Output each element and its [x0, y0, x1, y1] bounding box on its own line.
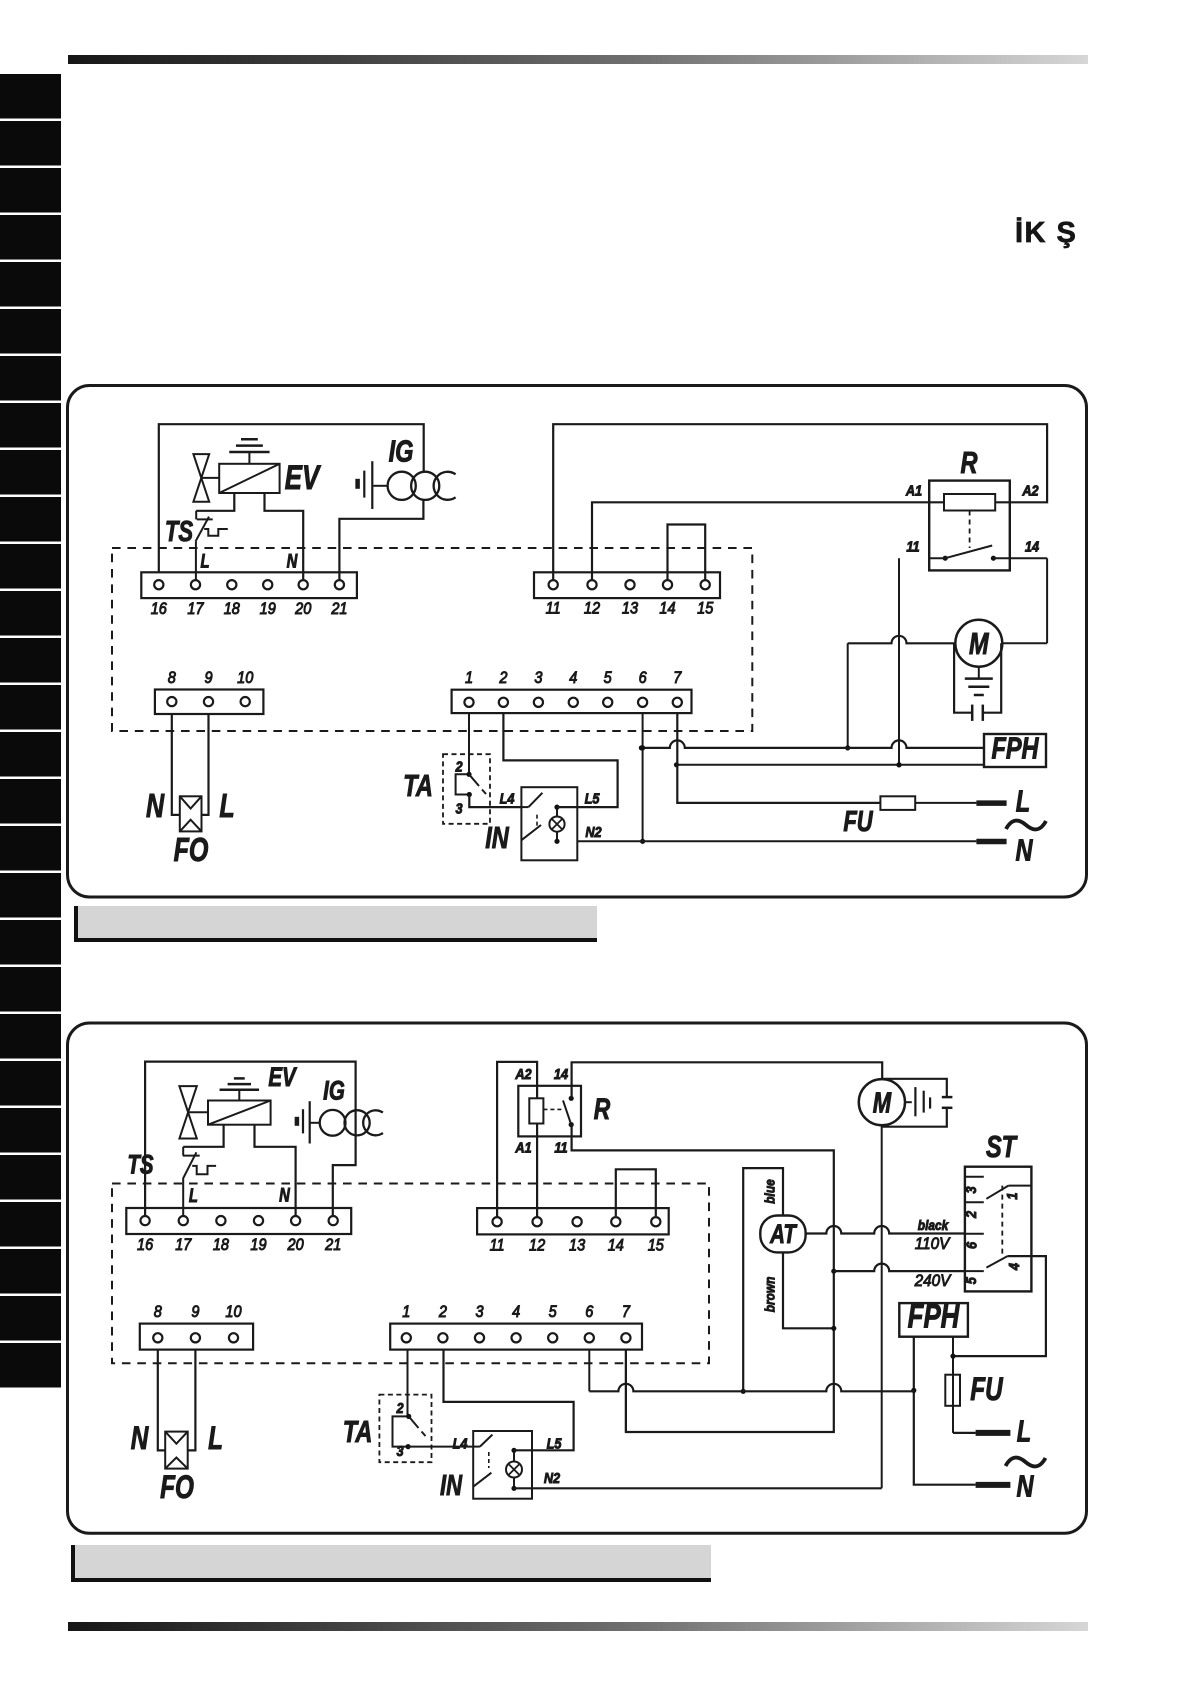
svg-text:R: R [594, 1092, 611, 1126]
svg-text:TS: TS [127, 1150, 153, 1180]
svg-text:N: N [1015, 833, 1033, 868]
svg-text:17: 17 [187, 600, 204, 618]
svg-text:N: N [1016, 1468, 1034, 1503]
svg-text:18: 18 [213, 1236, 229, 1254]
svg-text:A1: A1 [905, 482, 922, 499]
svg-text:1: 1 [1003, 1193, 1020, 1200]
svg-text:8: 8 [154, 1303, 162, 1321]
svg-text:EV: EV [285, 460, 322, 497]
svg-text:N: N [146, 788, 165, 825]
svg-text:6: 6 [963, 1242, 980, 1249]
svg-text:19: 19 [260, 600, 276, 618]
svg-text:L5: L5 [547, 1434, 562, 1451]
svg-text:14: 14 [1025, 537, 1039, 554]
svg-text:L: L [1017, 1413, 1031, 1448]
svg-text:black: black [918, 1217, 949, 1233]
svg-text:4: 4 [569, 669, 577, 687]
svg-text:7: 7 [673, 669, 682, 687]
svg-text:14: 14 [608, 1237, 624, 1255]
svg-text:9: 9 [191, 1303, 199, 1321]
svg-text:blue: blue [762, 1179, 778, 1203]
svg-text:21: 21 [330, 600, 347, 618]
svg-text:5: 5 [604, 669, 612, 687]
svg-text:L: L [189, 1185, 198, 1206]
svg-text:2: 2 [396, 1399, 404, 1416]
svg-text:13: 13 [569, 1237, 585, 1255]
svg-text:brown: brown [762, 1277, 778, 1313]
svg-text:12: 12 [584, 600, 600, 618]
svg-text:N: N [287, 551, 298, 572]
svg-text:21: 21 [324, 1236, 341, 1254]
svg-text:L4: L4 [500, 789, 515, 806]
svg-text:14: 14 [554, 1065, 568, 1082]
svg-text:7: 7 [622, 1303, 631, 1321]
svg-text:M: M [969, 626, 990, 661]
svg-text:L: L [208, 1421, 223, 1457]
svg-text:EV: EV [268, 1062, 297, 1092]
svg-text:10: 10 [225, 1303, 241, 1321]
svg-text:16: 16 [137, 1236, 153, 1254]
svg-text:IG: IG [389, 433, 414, 468]
svg-text:9: 9 [204, 669, 212, 687]
svg-text:N2: N2 [585, 823, 602, 840]
svg-text:A1: A1 [514, 1138, 531, 1155]
svg-text:IN: IN [485, 820, 510, 855]
svg-text:12: 12 [529, 1237, 545, 1255]
svg-text:2: 2 [962, 1211, 979, 1219]
svg-text:FPH: FPH [908, 1298, 961, 1335]
svg-text:1: 1 [402, 1303, 410, 1321]
svg-text:1: 1 [465, 669, 473, 687]
svg-text:5: 5 [962, 1277, 979, 1284]
svg-text:4: 4 [1005, 1263, 1022, 1271]
svg-text:TA: TA [343, 1414, 373, 1449]
svg-text:A2: A2 [1021, 482, 1038, 499]
svg-text:L: L [200, 551, 209, 572]
svg-text:R: R [960, 445, 977, 480]
svg-text:N: N [131, 1421, 149, 1457]
svg-text:AT: AT [769, 1219, 798, 1249]
svg-text:13: 13 [622, 600, 638, 618]
svg-text:11: 11 [906, 537, 919, 554]
svg-text:8: 8 [168, 669, 176, 687]
svg-text:L: L [219, 788, 234, 825]
svg-text:M: M [873, 1088, 892, 1120]
svg-text:18: 18 [224, 600, 240, 618]
svg-text:N2: N2 [544, 1469, 561, 1486]
svg-text:3: 3 [396, 1442, 403, 1459]
svg-text:A2: A2 [514, 1065, 531, 1082]
svg-text:TS: TS [165, 516, 193, 548]
svg-text:2: 2 [498, 669, 507, 687]
svg-text:17: 17 [175, 1236, 192, 1254]
svg-text:16: 16 [151, 600, 167, 618]
svg-text:10: 10 [237, 669, 253, 687]
svg-text:6: 6 [639, 669, 647, 687]
svg-text:15: 15 [648, 1237, 664, 1255]
svg-text:ST: ST [986, 1129, 1018, 1164]
svg-text:19: 19 [250, 1236, 266, 1254]
svg-text:20: 20 [294, 600, 311, 618]
svg-text:IG: IG [323, 1076, 345, 1106]
svg-text:FU: FU [970, 1372, 1004, 1408]
svg-text:11: 11 [490, 1237, 505, 1255]
svg-text:110V: 110V [915, 1234, 952, 1253]
svg-text:3: 3 [534, 669, 542, 687]
svg-text:3: 3 [475, 1303, 483, 1321]
svg-text:L4: L4 [453, 1434, 468, 1451]
svg-text:FPH: FPH [991, 730, 1039, 765]
svg-text:IN: IN [440, 1470, 463, 1502]
svg-text:20: 20 [287, 1236, 304, 1254]
svg-text:FO: FO [160, 1470, 194, 1506]
svg-text:L: L [1016, 783, 1030, 818]
svg-text:14: 14 [659, 600, 675, 618]
svg-text:15: 15 [697, 600, 713, 618]
svg-text:2: 2 [455, 758, 463, 775]
svg-text:240V: 240V [914, 1271, 953, 1290]
svg-text:6: 6 [585, 1303, 593, 1321]
svg-text:11: 11 [554, 1138, 567, 1155]
svg-text:L5: L5 [585, 789, 600, 806]
svg-text:4: 4 [512, 1303, 520, 1321]
svg-text:TA: TA [403, 768, 433, 803]
svg-text:5: 5 [549, 1303, 557, 1321]
svg-text:3: 3 [455, 799, 462, 816]
svg-text:11: 11 [546, 600, 561, 618]
svg-text:FU: FU [843, 806, 874, 838]
svg-text:2: 2 [438, 1303, 447, 1321]
svg-text:FO: FO [174, 832, 209, 869]
svg-text:3: 3 [962, 1186, 979, 1193]
svg-text:N: N [279, 1185, 290, 1206]
